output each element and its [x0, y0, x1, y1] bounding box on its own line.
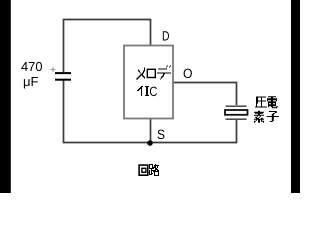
svg-text:C: C	[149, 84, 157, 99]
svg-text:D: D	[162, 29, 170, 44]
svg-text:O: O	[183, 66, 193, 81]
svg-text:470: 470	[21, 59, 43, 74]
svg-text:S: S	[157, 127, 165, 142]
svg-text:μF: μF	[23, 74, 39, 89]
